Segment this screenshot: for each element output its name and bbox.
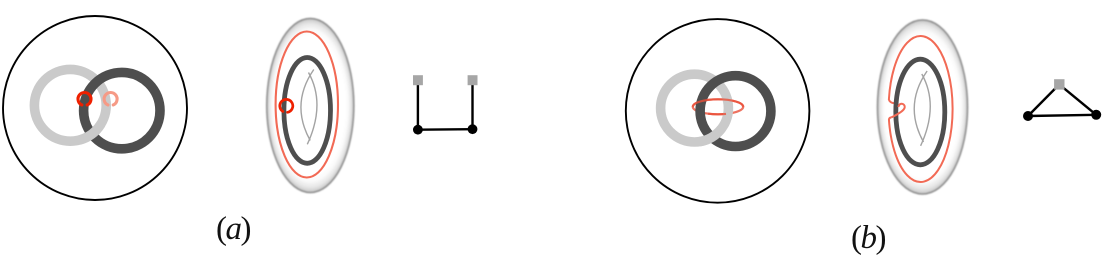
square vertex top (b): [1054, 79, 1064, 89]
sphere boundary circle (b): [626, 19, 810, 203]
square vertex right (a): [468, 75, 478, 85]
torus hole inner curve 1 (a): [301, 70, 314, 141]
wire: right slanted edge (b): [1059, 84, 1096, 114]
dark gray core circle of torus (b): [896, 59, 945, 165]
solid torus (shaded ellipse, b): [878, 20, 968, 194]
pale red meridian loop around light strand (a): [104, 93, 117, 105]
orange longitude with meridian jog, main part (b): [889, 36, 953, 182]
wire: bottom horizontal edge (a): [418, 128, 473, 131]
red meridian loop on torus core (a): [280, 99, 293, 112]
wire: left slanted edge (b): [1028, 84, 1059, 116]
solid torus (shaded ellipse, a): [267, 19, 354, 193]
salmon curve front top arc (b): [693, 99, 743, 107]
square vertex left (a): [413, 75, 423, 85]
wire: light ring over-crossing at bottom (b): [700, 129, 721, 142]
sphere boundary circle (a): [3, 16, 187, 200]
dark gray ring (right component of Hopf link, a): [84, 72, 160, 148]
torus hole inner curve 2 (a): [307, 73, 317, 145]
round vertex right (a): [468, 124, 478, 134]
wire: light ring over-crossing at bottom (a): [80, 124, 101, 140]
wire: right vertical edge (a): [471, 80, 473, 129]
caption label (b): [851, 222, 885, 255]
dark gray ring (b): [700, 76, 771, 147]
round vertex left (b): [1023, 111, 1033, 121]
light gray ring (left component of Hopf link, a): [34, 69, 106, 141]
light gray ring (b): [661, 74, 729, 142]
round vertex right (b): [1091, 110, 1101, 120]
salmon encircling curve, full ellipse drawn under rings (b): [693, 99, 743, 114]
wire: left vertical edge (a): [417, 80, 419, 130]
wire: bottom edge (b): [1028, 115, 1096, 116]
torus hole inner curve 2 (b): [921, 74, 931, 146]
salmon curve front bottom-middle segment (b): [708, 113, 726, 116]
round vertex left (a): [413, 125, 423, 135]
dark gray core circle of torus (a): [284, 58, 331, 164]
torus hole inner curve 1 (b): [914, 71, 927, 142]
orange longitude curve on torus (a): [276, 32, 338, 178]
caption label (a): [216, 213, 250, 246]
orange meridian hook over core circle (b): [891, 104, 904, 118]
bright red meridian loop around dark strand (a): [78, 93, 91, 105]
